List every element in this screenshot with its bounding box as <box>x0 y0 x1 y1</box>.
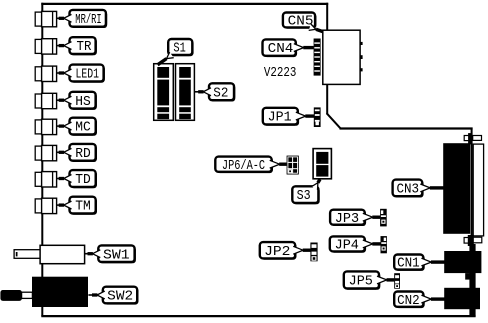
svg-text:JP6/A-C: JP6/A-C <box>222 159 265 174</box>
svg-text:CN2: CN2 <box>397 294 420 309</box>
label CN4 <box>263 39 314 57</box>
label S1 <box>158 39 194 65</box>
jumper JP3 <box>380 209 387 227</box>
switch SW1 <box>14 245 85 263</box>
label CN5 <box>283 13 323 32</box>
label S3 <box>292 179 320 204</box>
svg-text:S1: S1 <box>173 42 185 57</box>
connector CN4 pin header <box>314 39 321 76</box>
label JP5 <box>344 271 395 289</box>
label SW1 <box>85 245 136 263</box>
svg-text:TD: TD <box>75 173 91 188</box>
connector CN1 <box>444 251 481 280</box>
jumper block JP6/A-C <box>287 156 299 175</box>
label SW2 <box>88 287 138 305</box>
label MC <box>57 118 97 136</box>
svg-text:MR/RI: MR/RI <box>75 13 101 28</box>
svg-text:JP3: JP3 <box>335 212 359 227</box>
board outline right edge <box>471 128 473 317</box>
LED indicator LED1 <box>35 66 56 81</box>
label TR <box>57 37 97 55</box>
svg-text:TR: TR <box>77 40 92 55</box>
svg-text:S2: S2 <box>213 86 228 101</box>
jumper JP5 <box>394 273 400 289</box>
switch S3 <box>313 149 331 179</box>
label MR/RI <box>57 10 107 28</box>
LED indicator TD <box>35 172 56 187</box>
connector CN3 <box>443 133 483 246</box>
label JP4 <box>330 236 381 253</box>
LED indicator RD <box>35 145 56 160</box>
bracket bar <box>469 244 475 317</box>
LED indicator HS <box>35 93 56 108</box>
label JP6/A-C <box>215 157 286 174</box>
board outline bottom edge <box>41 315 475 317</box>
board outline top edge <box>41 3 328 5</box>
label TM <box>57 197 97 215</box>
label CN2 <box>394 292 444 309</box>
board outline left edge <box>41 3 43 316</box>
label JP2 <box>260 242 311 260</box>
svg-text:RD: RD <box>75 147 91 162</box>
jumper JP2 <box>310 243 317 262</box>
label TD <box>57 170 97 188</box>
label S2 <box>195 83 236 101</box>
label JP3 <box>330 210 380 227</box>
connector CN2 <box>444 288 480 309</box>
svg-text:JP5: JP5 <box>349 275 373 290</box>
label HS <box>57 92 97 110</box>
svg-text:HS: HS <box>75 95 91 110</box>
svg-text:JP4: JP4 <box>335 239 359 254</box>
svg-text:V2223: V2223 <box>264 66 297 81</box>
label CN1 <box>394 255 444 272</box>
svg-text:SW1: SW1 <box>103 248 130 263</box>
LED indicator MR/RI <box>35 11 56 26</box>
DIP switch S1 <box>154 64 174 121</box>
svg-text:JP1: JP1 <box>268 111 292 126</box>
connector CN5 jack <box>323 30 363 84</box>
svg-text:CN3: CN3 <box>397 183 420 198</box>
board outline top-right vertical edge <box>326 3 328 114</box>
board outline step horizontal edge <box>340 127 473 129</box>
LED indicator TR <box>35 39 56 54</box>
label RD <box>57 144 97 162</box>
label JP1 <box>263 108 314 126</box>
label LED1 <box>57 65 105 83</box>
text V2223 <box>264 66 297 81</box>
svg-text:TM: TM <box>75 200 91 215</box>
svg-text:CN1: CN1 <box>397 257 420 272</box>
board outline diagonal notch edge <box>327 113 341 128</box>
svg-text:LED1: LED1 <box>76 68 100 83</box>
DIP switch S2 <box>176 64 195 121</box>
LED indicator MC <box>35 119 56 134</box>
svg-text:S3: S3 <box>297 189 311 204</box>
jumper JP4 <box>381 236 387 253</box>
svg-text:JP2: JP2 <box>264 245 290 260</box>
svg-text:CN4: CN4 <box>268 42 294 57</box>
jumper JP1 <box>314 107 321 127</box>
LED indicator TM <box>35 198 56 213</box>
svg-text:CN5: CN5 <box>288 15 314 30</box>
label CN3 <box>393 180 444 198</box>
svg-text:MC: MC <box>75 121 91 136</box>
svg-text:SW2: SW2 <box>107 290 133 305</box>
switch SW2 <box>0 277 88 307</box>
